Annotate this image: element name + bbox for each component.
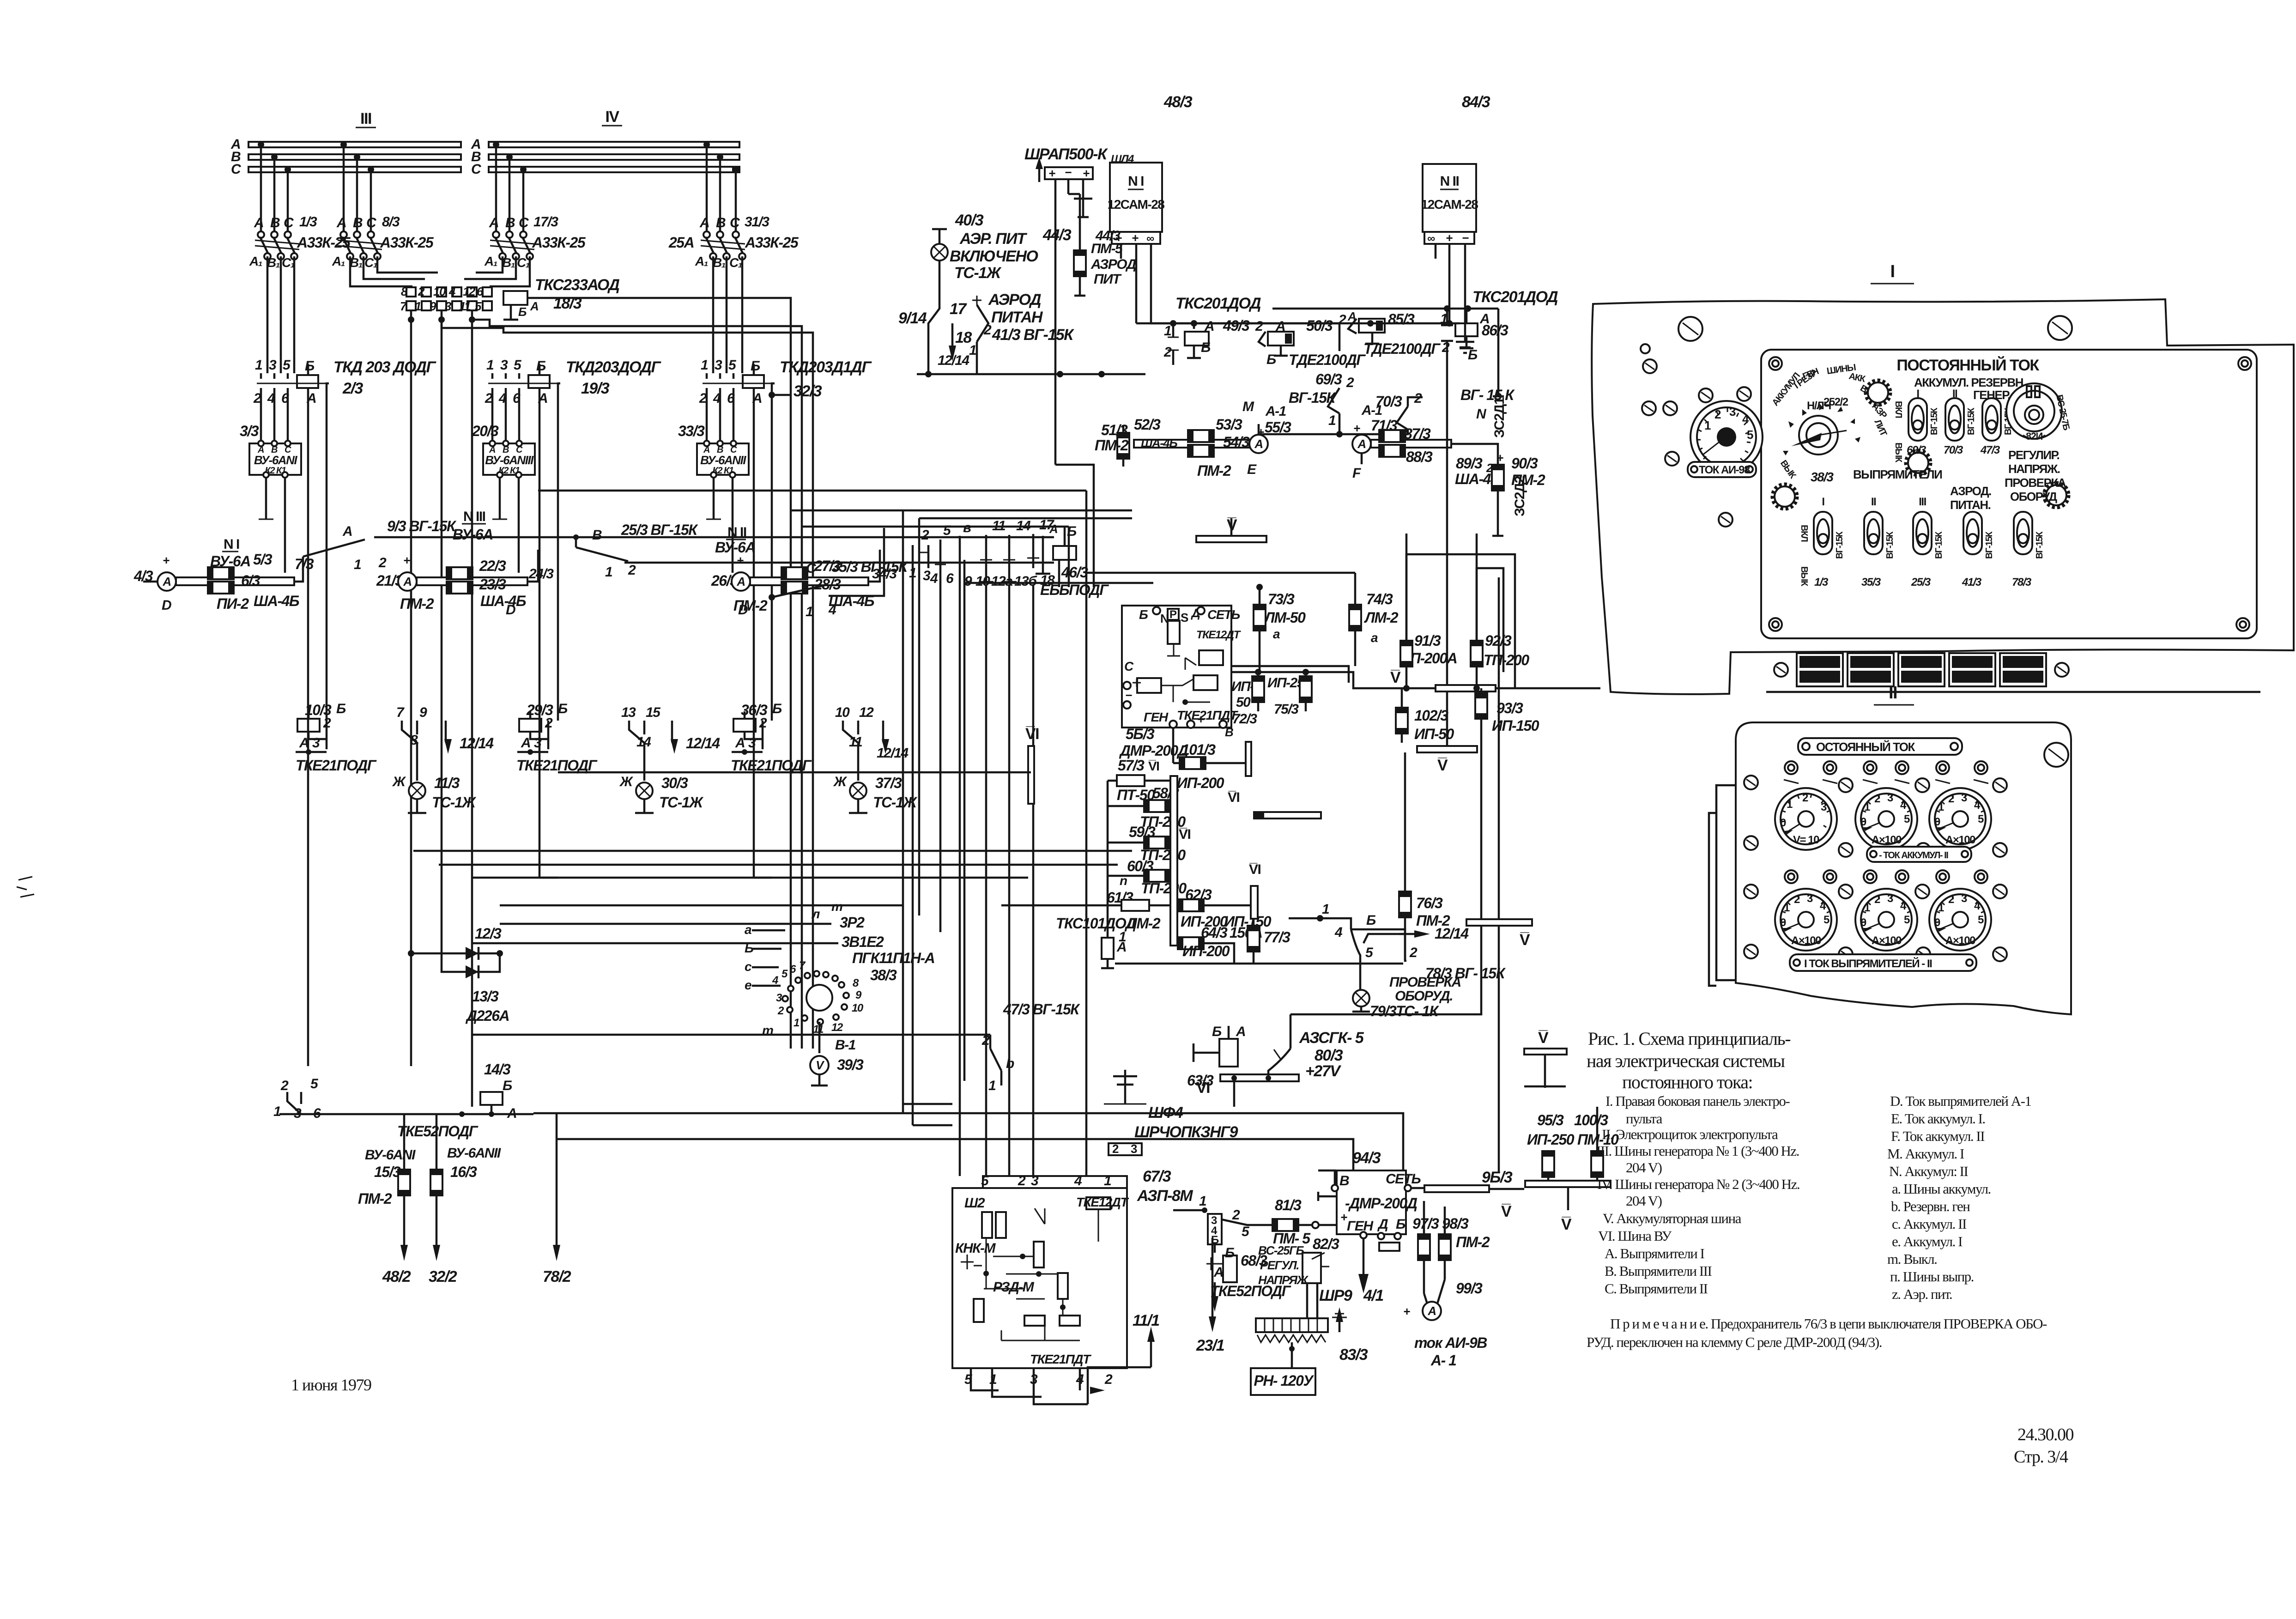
svg-text:Д: Д: [1377, 1217, 1388, 1232]
wires G3 bottom to hub: [476, 256, 503, 273]
svg-text:ТКД 203 ДОДГ: ТКД 203 ДОДГ: [333, 358, 436, 376]
svg-text:Б: Б: [1366, 913, 1376, 928]
breaker АЗСГК-5 80/3 +27V: [1196, 1014, 1364, 1107]
connector ШРАП500-К: [1024, 146, 1134, 465]
bottom plate ТОК ВЫПРЯМИТЕЛЕЙ: [1790, 954, 1976, 971]
svg-text:75/3: 75/3: [1274, 702, 1299, 717]
svg-text:Ж: Ж: [833, 774, 848, 789]
svg-text:74/3: 74/3: [1366, 591, 1393, 607]
labels РЕГУЛИР НАПРЯЖ ПРОВЕРКА ОБОРУД: [2005, 448, 2066, 503]
fuse 59/3 ТП-200: [1108, 824, 1186, 863]
battery bus V top: [1196, 516, 1266, 542]
fuse FU 15/3 ВУ-6АNI ПМ-2: [358, 1114, 416, 1285]
svg-text:- ТОК АККУМУЛ- II: - ТОК АККУМУЛ- II: [1879, 850, 1948, 861]
svg-text:D: D: [506, 602, 515, 618]
svg-text:10: 10: [852, 1002, 864, 1014]
svg-text:12/14: 12/14: [686, 735, 720, 752]
ammeter cluster F: 71/3 87/3 88/3 89/3 90/3: [1352, 403, 1545, 536]
svg-text:А: А: [530, 299, 538, 313]
svg-text:ПРОВЕРКА: ПРОВЕРКА: [2005, 476, 2066, 490]
svg-text:83/3: 83/3: [1339, 1346, 1368, 1364]
fuse ЛМ-50 73/3: [1254, 584, 1306, 672]
middle plate ТОК АККУМУЛ: [1867, 847, 1971, 862]
ammeter cluster D1: 4/3 ПИ-2 ША-4Б: [133, 537, 314, 613]
svg-text:1: 1: [806, 604, 813, 619]
svg-text:+: +: [1132, 231, 1139, 245]
hub ТКС233АОД contact squares row1: [401, 285, 492, 298]
svg-text:16/3: 16/3: [450, 1164, 477, 1180]
svg-text:55/3: 55/3: [1265, 419, 1291, 436]
svg-text:+27V: +27V: [1305, 1062, 1342, 1080]
ammeter gauge A x100 (3): [1775, 889, 1837, 951]
ammeter cluster D3: 26/3 ПМ-2 ША-4Б: [711, 550, 897, 618]
connector ШР9 4/1: [1256, 1287, 1383, 1368]
svg-text:+: +: [403, 553, 410, 567]
svg-text:РЕГУЛ.: РЕГУЛ.: [1260, 1258, 1299, 1272]
svg-text:ВГ-15К: ВГ-15К: [2035, 531, 2045, 559]
svg-text:ЕББПОДГ: ЕББПОДГ: [1040, 582, 1109, 598]
svg-text:АЭР. ПИТ: АЭР. ПИТ: [959, 230, 1028, 248]
svg-text:9/3 ВГ-15К: 9/3 ВГ-15К: [387, 518, 457, 534]
svg-text:II: II: [1871, 496, 1876, 508]
svg-text:V= 10: V= 10: [1793, 834, 1819, 846]
svg-text:82/3: 82/3: [1313, 1236, 1339, 1252]
svg-text:В: В: [1339, 1173, 1349, 1188]
svg-text:АЗП-8М: АЗП-8М: [1137, 1187, 1193, 1205]
sheet small screws: [1643, 359, 1657, 373]
svg-text:2: 2: [485, 391, 493, 406]
svg-text:44/3: 44/3: [1042, 226, 1072, 244]
svg-text:25/3 ВГ-15К: 25/3 ВГ-15К: [621, 521, 698, 538]
svg-text:АЗСГК- 5: АЗСГК- 5: [1299, 1029, 1364, 1047]
svg-text:III. Шины генератора № 1 (: III. Шины генератора № 1 (3~400 Hz.: [1596, 1143, 1799, 1159]
switch 78/3 ВГ-15К: [1289, 902, 1506, 991]
svg-text:Б: Б: [1396, 1217, 1405, 1232]
svg-text:ПМ-2: ПМ-2: [1456, 1234, 1490, 1250]
svg-text:204 V): 204 V): [1626, 1159, 1662, 1176]
svg-text:ИП-50: ИП-50: [1414, 726, 1454, 742]
svg-text:67/3: 67/3: [1143, 1168, 1171, 1185]
lamp ПРОВЕРКА ОБОРУД 79/3 ТС-1К: [1290, 719, 1481, 1019]
fuse 58/3 ТП-200: [1108, 785, 1186, 830]
svg-text:С₁: С₁: [517, 255, 530, 270]
arrows 11/1 23/1: [1088, 1238, 1224, 1404]
svg-text:Е: Е: [1247, 462, 1257, 477]
svg-text:ВЫПРЯМИТЕЛИ: ВЫПРЯМИТЕЛИ: [1853, 467, 1942, 481]
svg-text:1: 1: [605, 564, 612, 580]
svg-text:А: А: [521, 735, 530, 751]
svg-text:II. Электрощиток электропуль: II. Электрощиток электропульта: [1602, 1126, 1778, 1142]
relay ТКЕ21ПОДГ 36/3: [731, 701, 909, 781]
svg-text:23/1: 23/1: [1196, 1337, 1224, 1354]
svg-text:46/3: 46/3: [1061, 564, 1088, 581]
svg-text:69/3: 69/3: [1315, 371, 1342, 388]
svg-text:2: 2: [1346, 375, 1354, 390]
svg-text:Б: Б: [558, 701, 568, 716]
svg-text:+: +: [1340, 1210, 1347, 1224]
svg-text:2: 2: [1018, 1173, 1026, 1188]
svg-text:5Б/3: 5Б/3: [1126, 726, 1155, 742]
svg-text:N: N: [1476, 406, 1487, 422]
breaker QF4 31/3 А33К-25 25А: [668, 214, 799, 270]
svg-text:В: В: [716, 215, 726, 230]
switch SA 35/3 ВГ-15К: [769, 528, 909, 619]
svg-text:z. Аэр. пит.: z. Аэр. пит.: [1892, 1286, 1952, 1302]
svg-text:ПИТ: ПИТ: [1094, 272, 1122, 287]
svg-text:1: 1: [794, 1017, 800, 1029]
svg-text:М: М: [1242, 399, 1254, 414]
svg-text:m: m: [831, 899, 842, 914]
svg-text:69/3: 69/3: [1907, 444, 1926, 456]
panel I torn sheet outline: [1592, 299, 2294, 694]
svg-text:СЕТЬ: СЕТЬ: [1207, 607, 1240, 622]
svg-text:13/3: 13/3: [472, 988, 499, 1005]
wire 78/2 arrow: [543, 1114, 571, 1285]
svg-text:3: 3: [923, 568, 931, 583]
svg-text:Б: Б: [336, 701, 346, 716]
svg-text:97/3: 97/3: [1412, 1215, 1439, 1232]
svg-text:77/3: 77/3: [1264, 929, 1290, 946]
fuse 81/3 ПМ-5: [1272, 1197, 1337, 1247]
svg-text:АЭРОД: АЭРОД: [988, 291, 1041, 309]
battery N I 12САМ-28 48/3: [1095, 93, 1460, 327]
connector ШФ4 ШРЧОПКЗНГ9: [1104, 1070, 1238, 1156]
svg-text:11: 11: [849, 734, 862, 750]
svg-text:2: 2: [1163, 345, 1172, 360]
svg-text:ВЫК: ВЫК: [1893, 443, 1903, 463]
svg-text:ПМ-2: ПМ-2: [1197, 462, 1231, 479]
connector + switch block (1..5 Б): [1173, 1194, 1291, 1312]
svg-text:ИП-250: ИП-250: [1527, 1131, 1575, 1148]
svg-text:ЛМ-2: ЛМ-2: [1364, 609, 1399, 626]
svg-text:ВУ-6АNI: ВУ-6АNI: [254, 453, 297, 467]
svg-text:V̅: V̅: [1538, 1029, 1549, 1047]
svg-text:А: А: [336, 215, 346, 230]
svg-text:50/3: 50/3: [1306, 317, 1333, 334]
svg-text:3: 3: [1131, 1142, 1137, 1156]
svg-text:П р и м е ч а н и е. Предохра: П р и м е ч а н и е. Предохранитель 76/3…: [1610, 1316, 2047, 1332]
svg-text:Б: Б: [305, 358, 315, 374]
svg-text:Б: Б: [1201, 340, 1211, 355]
svg-text:53/3: 53/3: [1216, 416, 1242, 433]
svg-text:+: +: [1197, 712, 1204, 726]
svg-text:Б: Б: [1225, 1245, 1235, 1261]
bus VI horizontal bar: [1254, 812, 1321, 819]
small screws around gauges row1: [1744, 776, 1758, 789]
svg-text:НАПРЯЖ.: НАПРЯЖ.: [2008, 462, 2060, 476]
svg-text:ВКЛЮЧЕНО: ВКЛЮЧЕНО: [950, 248, 1038, 265]
svg-text:В. Выпрямители III: В. Выпрямители III: [1605, 1263, 1712, 1279]
relay ТКЕ21ПОДГ 29/3: [516, 701, 720, 781]
svg-text:95/3: 95/3: [1537, 1112, 1564, 1128]
svg-text:D: D: [738, 602, 748, 618]
svg-text:В₁: В₁: [350, 255, 363, 270]
svg-text:пульта: пульта: [1626, 1110, 1663, 1127]
svg-text:А: А: [1049, 522, 1057, 536]
svg-text:А₁: А₁: [332, 254, 345, 268]
svg-text:252/2: 252/2: [1823, 396, 1848, 408]
svg-text:81/3: 81/3: [1275, 1197, 1302, 1213]
svg-text:-ДМР-200Д: -ДМР-200Д: [1345, 1195, 1418, 1212]
svg-text:А×100: А×100: [1872, 834, 1902, 846]
svg-text:ВГ-15К: ВГ-15К: [1984, 531, 1994, 559]
svg-text:12/3: 12/3: [475, 925, 502, 942]
svg-text:РЕГУЛИР.: РЕГУЛИР.: [2008, 448, 2059, 462]
svg-text:88/3: 88/3: [1406, 449, 1433, 465]
svg-text:ГЕН: ГЕН: [1347, 1219, 1374, 1234]
svg-text:постоянного тока:: постоянного тока:: [1622, 1072, 1752, 1092]
svg-text:в: в: [963, 520, 971, 535]
svg-text:b: b: [1006, 1056, 1014, 1071]
wire loop proverka: [1290, 719, 1481, 1014]
svg-text:3: 3: [1031, 1173, 1039, 1188]
svg-text:ША-4Б: ША-4Б: [1141, 436, 1177, 450]
svg-text:Б: Б: [518, 305, 527, 319]
svg-text:VI. Шина ВУ: VI. Шина ВУ: [1598, 1228, 1672, 1244]
svg-text:2: 2: [628, 563, 636, 578]
contactor К2 ТКД203ДОДГ 19/3: [485, 358, 662, 878]
fuse ТКС101ДОД ЛМ-2 61/3: [1001, 889, 1170, 945]
svg-text:ЛМ-50: ЛМ-50: [1264, 609, 1306, 626]
svg-text:ТКС201ДОД: ТКС201ДОД: [1472, 288, 1558, 306]
svg-text:С₁: С₁: [729, 255, 742, 270]
svg-text:2: 2: [1112, 1142, 1119, 1156]
svg-text:98/3: 98/3: [1442, 1215, 1469, 1232]
breaker QF1 1/3 А33К-25: [249, 214, 351, 270]
svg-text:1/3: 1/3: [1814, 576, 1829, 588]
svg-text:А-1: А-1: [1361, 403, 1382, 418]
svg-text:40/3: 40/3: [955, 212, 984, 229]
svg-text:+: +: [737, 553, 744, 567]
svg-text:ШР9: ШР9: [1319, 1287, 1352, 1304]
fuse ИП-200 101/3 row: [1173, 728, 1251, 791]
svg-text:S: S: [1181, 611, 1188, 625]
svg-text:В: В: [1225, 725, 1233, 739]
lamp HL 40/3 АЭР.ПИТ ВКЛЮЧЕНО ТС-1Ж: [931, 212, 1038, 298]
fuse 62/3 ИП-200: [1177, 862, 1272, 930]
long horizontals bottom band: [533, 1113, 1403, 1170]
vertical bus VI bar left of ДМР: [558, 725, 1039, 804]
svg-text:А×100: А×100: [1945, 934, 1975, 947]
svg-text:ПМ-2: ПМ-2: [1095, 437, 1129, 454]
svg-text:12САМ-28: 12САМ-28: [1421, 197, 1478, 212]
svg-text:ВУ-6АNII: ВУ-6АNII: [447, 1146, 501, 1161]
wire drops group1: [260, 145, 262, 231]
svg-text:32/2: 32/2: [429, 1268, 457, 1285]
big slotted screws: [1678, 317, 1702, 341]
svg-text:19/3: 19/3: [581, 380, 610, 397]
svg-text:15: 15: [646, 705, 661, 720]
svg-text:ПМ-2: ПМ-2: [358, 1190, 392, 1207]
svg-text:Б: Б: [1468, 347, 1478, 363]
svg-text:1 июня 1979: 1 июня 1979: [291, 1376, 371, 1394]
svg-text:89/3: 89/3: [1456, 455, 1483, 472]
svg-text:57/3: 57/3: [1118, 757, 1145, 774]
svg-text:АККУМУЛ. РЕЗЕРВН.: АККУМУЛ. РЕЗЕРВН.: [1914, 376, 2026, 389]
svg-text:54/3: 54/3: [1223, 434, 1250, 450]
svg-text:В₁: В₁: [713, 255, 726, 270]
svg-text:−: −: [1065, 165, 1072, 179]
svg-text:ПИТАН.: ПИТАН.: [1950, 498, 1991, 512]
svg-text:АЗРОД: АЗРОД: [1090, 257, 1136, 272]
svg-text:с: с: [745, 959, 752, 974]
svg-text:III: III: [360, 110, 371, 127]
svg-text:F: F: [1352, 466, 1361, 481]
long horizontals middle band: [413, 850, 1132, 852]
svg-text:44/3: 44/3: [1095, 228, 1121, 243]
svg-text:ТКС201ДОД: ТКС201ДОД: [1175, 295, 1261, 312]
svg-text:4: 4: [713, 391, 721, 406]
svg-text:А- 1: А- 1: [1430, 1352, 1456, 1369]
svg-text:Б: Б: [1266, 352, 1276, 367]
svg-text:1: 1: [273, 1104, 281, 1119]
long verticals bundle from top area down: [902, 510, 904, 1113]
svg-text:31/3: 31/3: [745, 214, 769, 230]
svg-text:РУД. переключен на клемму: РУД. переключен на клемму С реле ДМР-200…: [1587, 1334, 1882, 1350]
svg-text:1: 1: [1164, 323, 1171, 339]
svg-text:В₁: В₁: [502, 255, 515, 270]
svg-text:23/3: 23/3: [479, 576, 506, 593]
svg-text:32/3: 32/3: [794, 382, 822, 400]
svg-text:101/3: 101/3: [1181, 741, 1216, 758]
svg-text:ТКД203Д1ДГ: ТКД203Д1ДГ: [780, 358, 872, 376]
svg-text:А: А: [342, 524, 352, 539]
svg-text:е. Аккумул. I: е. Аккумул. I: [1892, 1233, 1963, 1249]
svg-text:В: В: [353, 215, 363, 230]
svg-text:N I: N I: [224, 537, 239, 552]
svg-text:m. Выкл.: m. Выкл.: [1887, 1251, 1937, 1267]
svg-text:ПМ-2: ПМ-2: [400, 595, 434, 612]
wire horizontals upper middle: [791, 509, 1132, 512]
vertical long wire ЗС2Д2 feed: [1446, 440, 1448, 688]
svg-text:Стр. 3/4: Стр. 3/4: [2014, 1447, 2068, 1467]
svg-text:ная электрическая системы: ная электрическая системы: [1587, 1050, 1785, 1071]
svg-text:ТС-1Ж: ТС-1Ж: [954, 264, 1002, 282]
svg-text:2/3: 2/3: [342, 380, 363, 397]
wire loops 91/3 92/3 feeders: [1406, 554, 1515, 688]
svg-text:п. Шины выпр.: п. Шины выпр.: [1890, 1268, 1974, 1285]
svg-text:4: 4: [498, 391, 507, 406]
bus III bars A B C: [248, 142, 461, 147]
svg-text:78/3: 78/3: [2012, 576, 2032, 588]
svg-text:15/3: 15/3: [374, 1164, 401, 1180]
svg-text:ВГ-15К: ВГ-15К: [1885, 531, 1895, 559]
svg-text:2: 2: [1409, 945, 1418, 960]
switch 17/18 9/14: [898, 298, 1145, 377]
battery N II 12САМ-28 84/3: [1421, 93, 1490, 353]
fuses 95/3 ИП-250 and 100/3 ПМ-10: [1527, 1107, 1619, 1181]
regulator ВС-25ГБ 82/3: [1258, 1236, 1339, 1318]
fuse ПМ-5 44/3 АЗРОД ПИТ: [1042, 194, 1136, 296]
svg-text:V̅I: V̅I: [1196, 1079, 1210, 1097]
svg-text:ВГ-15К: ВГ-15К: [1934, 531, 1944, 559]
svg-text:N. Аккумул: II: N. Аккумул: II: [1889, 1163, 1968, 1179]
svg-text:В-1: В-1: [835, 1037, 856, 1053]
svg-text:а: а: [1273, 627, 1280, 641]
svg-text:1/3: 1/3: [299, 214, 317, 230]
rectifier ВУ-6А N II: [678, 423, 749, 573]
svg-text:Б: Б: [1212, 1024, 1222, 1039]
svg-text:2: 2: [378, 555, 387, 570]
svg-text:V̅I: V̅I: [1249, 862, 1261, 877]
ammeter cluster D2: 21/3 ПМ-2 ША-4Б: [376, 509, 554, 618]
svg-text:17/3: 17/3: [533, 214, 558, 230]
svg-text:2: 2: [1232, 1207, 1240, 1223]
svg-text:ЛМ-2: ЛМ-2: [1126, 915, 1161, 932]
svg-text:41/3 ВГ-15К: 41/3 ВГ-15К: [992, 326, 1074, 344]
svg-text:Б: Б: [1211, 1234, 1219, 1246]
svg-text:1: 1: [701, 358, 708, 373]
relay ТКЕ21ПОДГ 10/3: [296, 701, 494, 781]
svg-text:48/2: 48/2: [382, 1268, 411, 1285]
svg-text:ТП-200: ТП-200: [1141, 880, 1187, 897]
svg-text:В: В: [270, 215, 280, 230]
rectifier ВУ-6А N III: [472, 423, 535, 573]
title plate ОСТОЯННЫЙ ТОК: [1798, 738, 1962, 755]
svg-text:25/3: 25/3: [1911, 576, 1931, 588]
svg-text:ПОСТОЯННЫЙ ТОК: ПОСТОЯННЫЙ ТОК: [1896, 356, 2039, 374]
svg-text:А: А: [299, 735, 309, 751]
bottom legend plates strip: [1766, 653, 2260, 692]
long lower horizontal: [1115, 963, 1403, 965]
svg-text:3: 3: [500, 358, 508, 373]
svg-text:1: 1: [486, 358, 494, 373]
svg-text:3Р2: 3Р2: [840, 914, 865, 931]
svg-text:49/3: 49/3: [1223, 317, 1250, 334]
relay group ТКС201ДОД left (49/3 50/3 ТДЕ2100ДГ): [1136, 295, 1366, 437]
svg-text:52/3: 52/3: [1134, 416, 1161, 433]
svg-text:37/3: 37/3: [875, 775, 902, 791]
svg-text:А: А: [699, 215, 709, 230]
svg-text:ЗС2Д1: ЗС2Д1: [1492, 397, 1507, 438]
svg-text:33/3: 33/3: [678, 423, 705, 439]
svg-text:Е. Ток аккумул. I.: Е. Ток аккумул. I.: [1891, 1110, 1985, 1127]
svg-text:1: 1: [969, 343, 976, 358]
svg-text:22/3: 22/3: [479, 558, 506, 574]
svg-text:ток АИ-9В: ток АИ-9В: [1414, 1334, 1487, 1351]
toggle row 1: АККУМУЛ РЕЗЕРВН ГЕНЕР: [1893, 376, 2026, 463]
junction dots bus III: [258, 141, 264, 148]
fuse 64/3 150А ИП-200: [1177, 919, 1290, 964]
svg-text:ТКЕ21ПОДГ: ТКЕ21ПОДГ: [731, 757, 812, 774]
svg-text:ОСТОЯННЫЙ ТОК: ОСТОЯННЫЙ ТОК: [1816, 740, 1915, 754]
wire drops group2: [343, 145, 345, 231]
svg-text:ТДЕ2100ДГ: ТДЕ2100ДГ: [1289, 352, 1366, 368]
svg-text:5: 5: [1747, 428, 1753, 442]
svg-text:Б: Б: [772, 701, 782, 716]
hub output wires down (long verticals): [408, 316, 414, 323]
svg-text:11/1: 11/1: [1133, 1312, 1159, 1329]
svg-text:а. Шины аккумул.: а. Шины аккумул.: [1892, 1181, 1991, 1197]
svg-text:С₁: С₁: [282, 255, 295, 270]
bus V T-bar left of legend: [1524, 1029, 1567, 1088]
ammeter gauge A x100 (5): [1929, 889, 1991, 951]
svg-text:2: 2: [1338, 312, 1346, 327]
wire ladder left rail: [1107, 781, 1109, 905]
svg-text:А: А: [254, 215, 263, 230]
svg-text:N II: N II: [727, 525, 746, 540]
ammeter АИ-9В 99/3 А-1: [1403, 1279, 1487, 1369]
bus V bar below 75/3: [1417, 691, 1477, 774]
svg-text:ДМР-200Д: ДМР-200Д: [1119, 742, 1188, 759]
relay group ТКС201ДОД right (85/3 86/3 ТДЕ2100ДГ): [1272, 288, 1558, 442]
svg-text:ТОК АИ-98: ТОК АИ-98: [1699, 464, 1750, 476]
svg-text:35/3 ВГ-15К: 35/3 ВГ-15К: [831, 558, 909, 575]
svg-text:А. Выпрямители I: А. Выпрямители I: [1605, 1245, 1705, 1261]
svg-text:6: 6: [281, 391, 289, 406]
svg-text:D. Ток выпрямителей А-1: D. Ток выпрямителей А-1: [1890, 1093, 2031, 1109]
svg-text:ТС-1Ж: ТС-1Ж: [659, 794, 704, 811]
